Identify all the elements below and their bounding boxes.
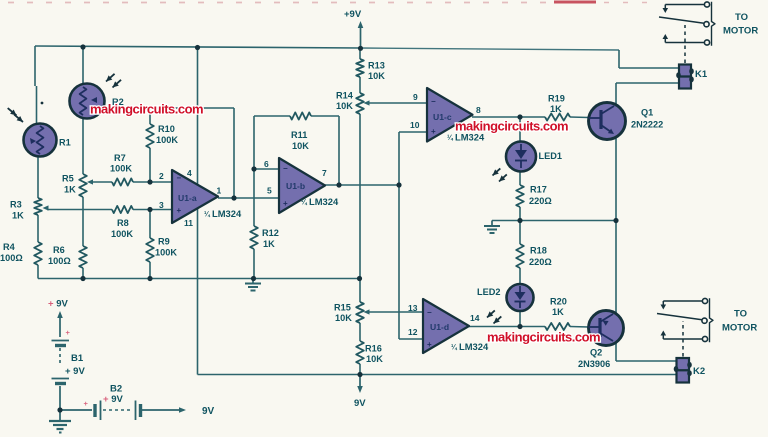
-9V arrow below R16: [357, 375, 363, 394]
label 1/4 LM324 (U1-a): [204, 208, 242, 219]
wire feedback loop U1-a: [150, 108, 234, 198]
svg-text:+: +: [66, 328, 71, 337]
wire R15 wiper to pin13: [366, 311, 423, 313]
svg-text:U1-a: U1-a: [178, 193, 197, 203]
svg-text:+: +: [177, 206, 182, 215]
label R7: [110, 153, 132, 174]
label R9: [155, 237, 177, 258]
emission arrows LED2: [487, 310, 501, 323]
svg-text:1K: 1K: [263, 239, 275, 249]
potentiometer R5: [79, 174, 93, 197]
wire R5 wiper to R7 to pin2: [91, 181, 172, 183]
watermark 1: [90, 102, 203, 117]
svg-text:R8: R8: [117, 218, 129, 228]
wire ground row: [492, 220, 616, 222]
svg-text:R1: R1: [59, 138, 71, 148]
wire R13 chain vertical: [359, 48, 361, 375]
potentiometer R14: [356, 93, 369, 114]
svg-text:MOTOR: MOTOR: [722, 323, 757, 334]
label R4: [0, 242, 23, 263]
label 1/4 LM324 (U1-b): [301, 196, 339, 207]
svg-text:4: 4: [187, 168, 192, 178]
wire U1-c output to Q1 base: [472, 116, 589, 119]
svg-text:−: −: [177, 174, 182, 183]
wire R3 wiper to R8 to pin3: [47, 209, 172, 211]
label 9V output: [202, 406, 215, 417]
label R16: [365, 344, 383, 365]
svg-text:6: 6: [264, 159, 269, 169]
label TO MOTOR 1: [723, 12, 758, 37]
svg-text:LM324: LM324: [459, 341, 489, 352]
dashed link K1: [684, 25, 686, 63]
relay K1: [676, 65, 694, 89]
wire R18 to LED2: [519, 221, 521, 285]
label R19: [548, 94, 565, 115]
battery B2: [95, 401, 186, 421]
label R3: [10, 200, 24, 221]
svg-text:U1-b: U1-b: [286, 181, 305, 191]
svg-text:−: −: [427, 308, 432, 317]
svg-text:B1: B1: [71, 353, 84, 364]
op-amp U1-c: [427, 88, 473, 142]
svg-text:B2: B2: [110, 384, 122, 395]
svg-text:MOTOR: MOTOR: [723, 26, 758, 37]
label R12: [262, 228, 279, 249]
svg-text:7: 7: [322, 168, 327, 178]
transistor Q2: [589, 311, 624, 346]
svg-text:100Ω: 100Ω: [0, 253, 23, 263]
svg-text:LM324: LM324: [212, 208, 242, 219]
label Q2: [578, 348, 610, 370]
svg-text:Q2: Q2: [590, 348, 602, 358]
svg-text:3: 3: [159, 200, 164, 210]
svg-text:2: 2: [159, 171, 164, 181]
label TO MOTOR 2: [722, 309, 757, 334]
svg-text:R20: R20: [550, 297, 567, 307]
resistor R13: [356, 59, 364, 77]
label +9V top: [344, 9, 362, 20]
svg-text:10K: 10K: [292, 141, 309, 151]
svg-text:11: 11: [184, 218, 193, 228]
label 1/4 LM324 (U1-c): [447, 132, 485, 143]
label R8: [111, 218, 133, 239]
label R5: [62, 174, 76, 195]
svg-text:−: −: [431, 97, 436, 106]
wire R9 branch: [149, 210, 151, 279]
resistor R12: [250, 226, 258, 249]
light arrows at R1: [8, 108, 23, 122]
svg-text:1K: 1K: [12, 211, 24, 221]
svg-text:220Ω: 220Ω: [529, 196, 552, 206]
svg-text:12: 12: [408, 327, 418, 337]
watermark 3: [487, 330, 600, 345]
svg-text:9: 9: [413, 92, 418, 102]
svg-text:K1: K1: [695, 69, 708, 80]
wire top rail to K1: [619, 50, 679, 68]
resistor R19: [545, 113, 570, 120]
svg-text:13: 13: [408, 303, 418, 313]
resistor R6: [79, 246, 87, 268]
resistor R7: [112, 178, 133, 185]
wire LED1 to R17: [519, 171, 521, 221]
resistor R2 photocell body: [70, 84, 105, 119]
resistor R18: [516, 244, 524, 268]
emission arrows LED1: [493, 168, 507, 181]
wire U1-d output to Q2 base: [469, 326, 589, 329]
potentiometer R3: [34, 198, 48, 215]
wire U1-a pin11 to -9V rail: [197, 208, 199, 375]
ground at mid rail: [245, 279, 261, 291]
svg-text:10K: 10K: [335, 313, 352, 323]
resistor R1 photocell body: [24, 124, 57, 157]
label R17: [529, 185, 552, 207]
resistor R16: [356, 341, 364, 364]
svg-text:U1-c: U1-c: [433, 112, 452, 122]
svg-text:1K: 1K: [64, 185, 76, 195]
svg-text:TO: TO: [734, 309, 747, 320]
resistor R20: [545, 323, 570, 330]
pin labels U1-d: [408, 303, 480, 337]
op-amp U1-a: [172, 170, 218, 223]
label B2: [110, 384, 122, 395]
wire Q1 emitter to Q2 top: [615, 137, 617, 313]
label +9V B2: [103, 394, 123, 405]
motor switch 2: [657, 298, 713, 342]
svg-text:R4: R4: [3, 242, 16, 252]
wire LED1 stub: [519, 117, 521, 142]
svg-text:R9: R9: [158, 237, 170, 247]
label LED1: [539, 151, 563, 161]
resistor R4: [34, 242, 42, 265]
battery B1: [52, 311, 70, 410]
resistor R11: [290, 112, 311, 119]
label R10: [156, 124, 178, 145]
wire R5 to R6: [82, 197, 84, 246]
svg-text:2N3906: 2N3906: [578, 359, 610, 369]
svg-text:+ 9V: + 9V: [103, 394, 123, 405]
label K2: [693, 366, 705, 377]
wire node to U1-c pin10: [399, 132, 427, 185]
wire U1-b output: [325, 184, 399, 186]
svg-text:R15: R15: [334, 303, 351, 313]
svg-text:100K: 100K: [156, 135, 178, 145]
top edge artifacts: [8, 1, 650, 4]
svg-text:R11: R11: [291, 130, 307, 140]
svg-text:+ 9V: + 9V: [48, 299, 68, 310]
svg-text:R16: R16: [365, 344, 382, 354]
svg-text:K2: K2: [693, 366, 705, 377]
svg-text:+: +: [431, 127, 436, 136]
label R20: [550, 297, 567, 318]
svg-text:LED2: LED2: [477, 287, 501, 297]
light arrows at R2: [106, 74, 121, 88]
wire R14 wiper to pin9: [366, 102, 427, 104]
resistor R17: [516, 185, 524, 207]
LED LED2: [507, 284, 534, 311]
label K1: [695, 69, 708, 80]
svg-text:1K: 1K: [550, 104, 562, 114]
svg-text:2N2222: 2N2222: [631, 120, 663, 130]
svg-text:+: +: [427, 340, 432, 349]
svg-text:R5: R5: [62, 174, 74, 184]
wire node to U1-d pin12: [399, 185, 423, 339]
watermark 2: [455, 119, 568, 134]
wire U1-b feedback loop: [254, 116, 339, 185]
label +9V B1: [65, 366, 85, 377]
svg-text:makingcircuits.com: makingcircuits.com: [455, 119, 568, 134]
svg-text:+ 9V: + 9V: [65, 366, 85, 377]
svg-text:100K: 100K: [110, 164, 132, 174]
svg-text:14: 14: [470, 313, 480, 323]
wire R2 to R5: [82, 119, 84, 174]
svg-text:R7: R7: [114, 153, 126, 163]
resistor R9: [146, 238, 154, 262]
+9V supply arrow: [358, 21, 364, 48]
motor switch 1: [659, 2, 715, 46]
svg-text:10: 10: [410, 120, 420, 130]
svg-text:+: +: [84, 399, 89, 408]
LED LED1: [506, 142, 536, 172]
wire R2 top stub: [82, 47, 84, 84]
label R13: [368, 61, 385, 82]
wire U1-a pin4 supply: [197, 47, 199, 185]
wire R6 to mid rail: [82, 268, 84, 279]
svg-text:100K: 100K: [111, 229, 133, 239]
label +9V above B1: [48, 299, 68, 310]
resistor R10: [146, 124, 154, 148]
svg-text:R10: R10: [158, 124, 175, 134]
svg-text:9V: 9V: [202, 406, 215, 417]
label R2: [112, 97, 124, 107]
plus mark B1: [66, 328, 71, 337]
wire U1-b pin6 stub: [254, 168, 279, 170]
pin labels U1-c: [410, 92, 481, 130]
svg-text:1K: 1K: [552, 307, 564, 317]
dashed link K2: [682, 321, 684, 357]
op-amp U1-d: [423, 299, 469, 353]
label 1/4 LM324 (U1-d): [451, 341, 489, 352]
svg-text:100Ω: 100Ω: [48, 256, 71, 266]
wire R3 to R4: [37, 215, 39, 242]
op-amp U1-b: [279, 158, 325, 213]
svg-text:U1-d: U1-d: [430, 322, 449, 332]
svg-text:LED1: LED1: [539, 151, 563, 161]
wire left rail to R1: [35, 46, 37, 124]
svg-text:100K: 100K: [155, 248, 177, 258]
wire +9V top rail: [35, 46, 619, 50]
resistor R8: [112, 206, 133, 213]
label R18: [529, 246, 552, 268]
svg-text:+: +: [283, 199, 288, 208]
svg-text:LM324: LM324: [309, 196, 339, 207]
svg-text:−: −: [283, 164, 288, 173]
svg-text:R6: R6: [53, 245, 65, 255]
label R6: [48, 245, 71, 266]
wire -9V bottom rail: [198, 374, 677, 376]
svg-text:makingcircuits.com: makingcircuits.com: [487, 330, 600, 345]
svg-text:R17: R17: [530, 185, 547, 195]
svg-text:TO: TO: [735, 12, 748, 23]
svg-text:220Ω: 220Ω: [529, 257, 552, 267]
label Q1: [631, 108, 663, 130]
wire LED2 to output row: [519, 311, 521, 327]
wire Q2 bottom to K2: [616, 342, 677, 361]
svg-text:10K: 10K: [336, 101, 353, 111]
plus mark B2: [84, 399, 89, 408]
pin labels U1-a: [159, 168, 222, 228]
svg-text:9V: 9V: [354, 398, 366, 409]
label 9V below R16: [354, 398, 366, 409]
wire R10 feedback branch: [149, 108, 151, 182]
label LED2: [477, 287, 501, 297]
pin labels U1-b: [264, 159, 327, 196]
svg-text:R18: R18: [530, 246, 547, 256]
transistor Q1: [589, 103, 626, 140]
svg-text:10K: 10K: [366, 354, 383, 364]
svg-text:+9V: +9V: [344, 9, 362, 20]
svg-text:makingcircuits.com: makingcircuits.com: [90, 102, 203, 117]
wire B1 to B2: [60, 409, 92, 411]
svg-text:R12: R12: [262, 228, 279, 238]
label R11: [291, 130, 309, 151]
ground at LED row: [484, 221, 500, 234]
wire U1-a output to U1-b pin5: [218, 197, 279, 199]
svg-text:1: 1: [217, 186, 222, 196]
wire mid ground rail: [38, 278, 359, 280]
svg-text:5: 5: [267, 186, 272, 196]
svg-text:R13: R13: [368, 61, 385, 71]
svg-text:Q1: Q1: [641, 108, 653, 118]
svg-text:10K: 10K: [368, 71, 385, 81]
wire Q1 collector to K1: [616, 83, 679, 105]
svg-text:8: 8: [476, 105, 481, 115]
label R1: [59, 138, 71, 148]
wire R1 to R3: [37, 156, 39, 198]
svg-text:R3: R3: [10, 200, 22, 210]
potentiometer R15: [356, 302, 369, 323]
label R15: [334, 303, 352, 324]
relay K2: [674, 358, 692, 383]
label R14: [336, 91, 354, 112]
svg-text:R14: R14: [336, 91, 354, 101]
svg-text:R19: R19: [548, 94, 565, 104]
wire R12 branch: [253, 116, 255, 279]
wire R4 to mid rail: [37, 265, 39, 279]
ground at B1: [49, 410, 71, 433]
label B1: [71, 353, 84, 364]
